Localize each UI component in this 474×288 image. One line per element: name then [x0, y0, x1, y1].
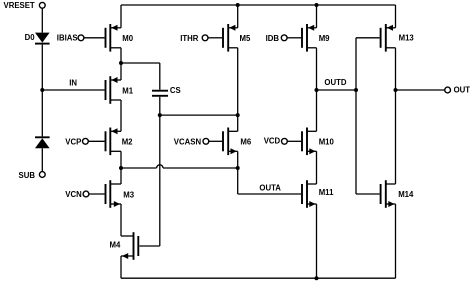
svg-text:M14: M14 — [398, 190, 414, 199]
svg-text:SUB: SUB — [19, 171, 36, 180]
transistor M3 — [106, 180, 122, 208]
transistor M5 — [223, 24, 238, 52]
junction CS node — [158, 113, 162, 117]
wire gate feed to M13 gate — [356, 37, 380, 39]
svg-text:M0: M0 — [122, 34, 133, 43]
wire VCN to M3 gate — [89, 193, 105, 195]
svg-text:CS: CS — [170, 86, 181, 95]
wire ITHR to M5 gate — [208, 37, 222, 39]
wire OUT node to OUT terminal — [396, 89, 445, 91]
wire OUTD to gate feed — [317, 89, 357, 91]
node C junction — [236, 166, 240, 170]
wire IDB to M9 gate — [287, 37, 301, 39]
svg-text:M2: M2 — [122, 137, 133, 146]
wire CS bottom to M4 gate — [159, 97, 161, 246]
svg-text:M3: M3 — [123, 190, 134, 199]
svg-text:M10: M10 — [319, 137, 335, 146]
svg-text:IBIAS: IBIAS — [57, 33, 78, 42]
svg-text:OUTA: OUTA — [259, 184, 281, 193]
node VCP terminal — [83, 138, 89, 144]
transistor M2 — [106, 128, 122, 156]
wire M6 source to node C — [237, 151, 239, 168]
wire M0 drain to top rail — [120, 5, 122, 28]
wire VCASN to M6 gate — [209, 140, 222, 142]
wire M5 drain to top rail — [237, 5, 239, 28]
ground rail bottom — [121, 277, 396, 279]
wire M13 drain to top rail — [395, 5, 397, 28]
wire M9 drain to top rail — [316, 5, 318, 28]
node VRESET terminal — [39, 2, 45, 8]
node ITHR terminal — [202, 35, 208, 41]
transistor M10 — [302, 128, 317, 156]
svg-text:OUTD: OUTD — [324, 78, 346, 87]
transistor M0 — [106, 24, 122, 52]
power rail top — [121, 4, 396, 6]
node VCD terminal — [282, 138, 288, 144]
node VCASN terminal — [203, 138, 209, 144]
junction M5 source node — [236, 113, 240, 117]
junction top rail M9 — [315, 3, 319, 7]
svg-text:M1: M1 — [122, 86, 133, 95]
wire gate feed to M14 gate — [356, 193, 380, 195]
wire VCP to M2 gate — [88, 140, 104, 142]
svg-text:M11: M11 — [319, 188, 334, 197]
wire M4 source to bottom rail — [120, 256, 122, 278]
svg-text:M5: M5 — [240, 34, 251, 43]
transistor M11 — [302, 180, 317, 208]
wire node IN to D1 cathode — [41, 90, 43, 136]
svg-text:M6: M6 — [240, 138, 251, 147]
wire node A to CS top — [121, 62, 160, 64]
wire M10 source to M11 drain — [316, 151, 318, 184]
svg-text:VCP: VCP — [65, 137, 81, 146]
junction gate feed — [354, 88, 358, 92]
svg-text:VCASN: VCASN — [174, 137, 202, 146]
wire M9 source to node OUTD — [316, 48, 318, 90]
node IN junction — [40, 88, 44, 92]
wire D1 anode to SUB — [41, 148, 43, 171]
node IBIAS terminal — [78, 35, 84, 41]
wire M11 source to bottom rail — [316, 204, 318, 278]
node A junction — [119, 61, 123, 65]
wire gate feed vertical M13 M14 — [355, 38, 357, 194]
transistor M9 — [302, 24, 317, 52]
svg-text:VCN: VCN — [65, 190, 82, 199]
wire node C to OUTA to M11 gate — [237, 168, 239, 194]
node B junction — [119, 166, 123, 170]
node SUB terminal — [39, 172, 45, 178]
wire M3 source to M4 drain — [120, 204, 122, 236]
svg-text:M9: M9 — [319, 34, 330, 43]
diode D1 — [35, 136, 50, 138]
capacitor CS — [152, 90, 168, 92]
svg-text:VCD: VCD — [264, 137, 281, 146]
diode D0 — [35, 33, 50, 43]
junction bottom rail M11 — [315, 276, 319, 280]
wire VRESET to D0 anode — [41, 8, 43, 32]
node IDB terminal — [281, 35, 287, 41]
wire IBIAS to M0 gate — [84, 37, 105, 39]
svg-text:ITHR: ITHR — [180, 34, 199, 43]
transistor M4 mirrored — [121, 232, 138, 260]
wire VCD to M10 gate — [287, 140, 301, 142]
wire M0 source to node A — [120, 48, 122, 63]
junction top rail M5 — [236, 3, 240, 7]
wire node B to M6 source with hop over CS line — [121, 167, 157, 169]
node OUT junction — [394, 88, 398, 92]
transistor M14 — [381, 180, 396, 208]
wire M2 source to node B — [120, 151, 122, 168]
node VCN terminal — [83, 191, 89, 197]
transistor M6 — [223, 128, 238, 156]
node OUTD junction — [315, 88, 319, 92]
svg-text:OUT: OUT — [454, 86, 471, 95]
wire node B to M3 drain — [120, 168, 122, 184]
transistor M13 — [381, 24, 396, 52]
svg-text:IDB: IDB — [266, 34, 280, 43]
svg-text:M13: M13 — [399, 34, 415, 43]
transistor M1 — [106, 76, 122, 104]
wire IN to M1 gate — [42, 89, 104, 91]
wire M5 source to M6 drain — [237, 48, 239, 132]
wire D0 cathode to node IN — [41, 45, 43, 90]
wire node A to M1 drain — [120, 63, 122, 80]
wire CS node to M5 source M6 drain — [160, 114, 238, 116]
wire OUTD to M10 drain — [316, 90, 318, 131]
svg-text:IN: IN — [69, 78, 77, 87]
wire M1 source to M2 drain — [120, 100, 122, 131]
node OUT terminal — [445, 87, 451, 93]
svg-text:D0: D0 — [25, 33, 36, 42]
svg-text:M4: M4 — [110, 241, 121, 250]
wire M14 source to bottom rail — [395, 204, 397, 278]
wire M13 source to M14 drain — [395, 48, 397, 184]
svg-text:VRESET: VRESET — [4, 1, 35, 10]
